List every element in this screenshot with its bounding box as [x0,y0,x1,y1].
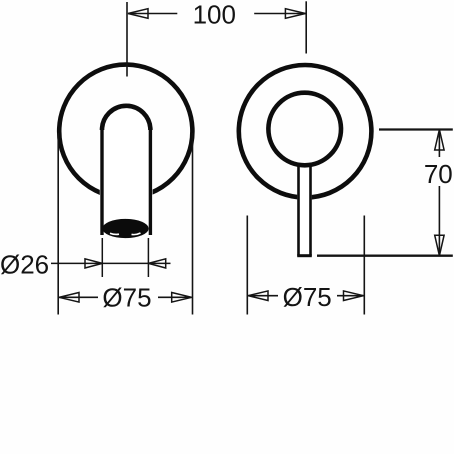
dim 100: dimension line segments [128,13,305,15]
svg-text:Ø75: Ø75 [283,282,332,312]
dim 100: left extension line [126,2,128,77]
handle lever bottom cap [297,254,312,257]
spout tube side walls [102,130,150,235]
dim 70: top extension line [379,128,453,130]
dim Ø75 left: left extension line [57,133,59,315]
dim 70: dimension line segments [438,130,440,256]
dim 100: right extension line [305,1,307,53]
dim 100: left arrowhead [128,9,148,19]
dim 70: bottom arrowhead (pointing down) [435,235,444,256]
handle lever white mask [297,166,311,257]
dim 70: top arrowhead (pointing up) [435,130,444,151]
dim Ø75 right: left extension line [246,216,248,315]
dim Ø75 right: left arrowhead [248,291,268,301]
dim Ø26: right extension line below spout [147,238,149,277]
dim 70: bottom extension line [317,254,453,256]
outlet highlight left [110,233,119,234]
dim Ø26: left arrowhead (outside, pointing right) [85,259,102,268]
dim Ø75 right: right extension line [363,216,365,315]
spout tube rounded top arc [102,106,150,130]
dim Ø75 left: right arrowhead [172,293,192,303]
dim Ø75 left: left arrowhead [59,293,79,303]
dim Ø75 right: dimension line segments [248,295,364,297]
dim Ø75 right: right arrowhead [344,291,364,301]
spout outlet dark ellipse [102,219,148,238]
handle lever side walls [299,164,311,256]
outlet highlight right [132,233,141,235]
dim 100: right arrowhead [285,9,305,19]
svg-text:Ø26: Ø26 [0,249,49,279]
svg-text:100: 100 [193,0,236,29]
spout tube white mask over circle [100,104,153,235]
dim Ø26: left extension line below spout [101,238,103,277]
dim Ø75 left: dimension line segments [59,296,192,298]
handle inner circle [268,93,341,166]
dim Ø75 left: right extension line [192,133,194,315]
svg-text:70: 70 [424,159,453,189]
right escutcheon outer circle [239,65,372,198]
dim Ø26: dimension line [51,262,171,264]
left flange circle (wall plate Ø75) [59,65,192,198]
svg-text:Ø75: Ø75 [102,283,151,313]
dim Ø26: right arrowhead (outside, pointing left) [148,259,165,268]
